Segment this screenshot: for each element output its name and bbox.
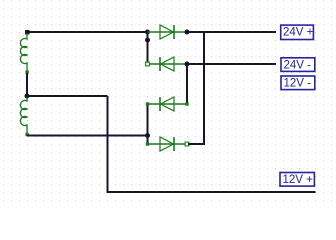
inductor L1b lower secondary winding: [20, 97, 27, 134]
wire: D4 cathode to right bus (187,144)-(204,144): [188, 138, 205, 144]
junction: bus top (147.5,32): [145, 30, 150, 35]
svg-text:12V -: 12V -: [284, 78, 312, 90]
port box 24V +: [281, 25, 314, 39]
junction: D2 anode (187,64): [185, 62, 190, 67]
wire: center tap horizontal (27,96)-(108,96): [27, 95, 108, 97]
port box 24V -: [281, 58, 315, 72]
diode D3 (points left, row y=104): [148, 97, 188, 111]
wire: bottom horizontal (108,192)-(315.5,192): [107, 191, 316, 193]
wire: to port 24V- (187,64)-(276,64): [187, 63, 276, 65]
terminal: L1a bottom pin (27,72): [25, 70, 28, 73]
terminal: D2 cathode pin open square (147.5,64): [146, 62, 150, 66]
port box 12V +: [280, 173, 314, 187]
wire: winding bottom horizontal (27,135.5)-(147.5,135.5): [27, 135, 148, 137]
wire: L1a bottom to center tap (27,72)-(27,96): [26, 73, 28, 96]
port box 12V -: [281, 76, 315, 90]
inductor L1a upper secondary winding: [20, 33, 27, 71]
junction: D1 cathode (187,32): [185, 30, 190, 35]
wire: D1 cathode to port 24V+ (187,32)-(280,32): [187, 31, 276, 33]
diode D4 (points right, row y=144): [148, 137, 188, 151]
terminal: D3 cathode pin (147.5,104): [146, 102, 149, 105]
svg-text:12V +: 12V +: [283, 174, 314, 186]
junction: lower bus (147.5,135.5): [145, 133, 150, 138]
svg-text:24V +: 24V +: [283, 27, 314, 39]
diode D2 (points left, row y=64): [148, 57, 188, 71]
junction: center tap (27,96): [25, 94, 30, 99]
wire: anode bus (147.5,32)-(147.5,64): [147, 32, 149, 64]
svg-text:24V -: 24V -: [284, 60, 312, 72]
terminal: L1b bottom pin (27,134.5): [25, 133, 28, 136]
wire: D2-D3 link (187,64)-(187,104): [186, 64, 188, 104]
terminal: D4 cathode pin open square (187,144): [185, 142, 189, 146]
junction: bus (147.5,40): [145, 38, 150, 43]
diode D1 (points right, row y=32): [148, 25, 188, 39]
wire: right bus vertical (204,32)-(204,144): [203, 32, 205, 144]
wire: lower bus (147.5,104)-(147.5,144): [147, 104, 149, 144]
junction: winding top terminal (27,32): [25, 30, 30, 35]
terminal: D3 anode pin (187,104): [185, 102, 188, 105]
wire: vertical drop (108,96)-(108,192): [107, 96, 109, 192]
terminal: D4 anode pin (147.5,144): [146, 142, 149, 145]
wire: top horizontal (27,32)-(147.5,32): [27, 31, 148, 33]
